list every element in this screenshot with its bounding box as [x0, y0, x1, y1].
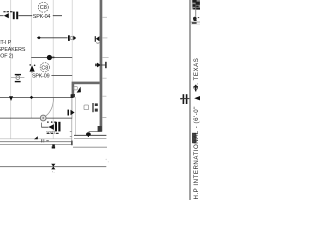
lower speaker horn triangle [48, 124, 54, 130]
keynote head [193, 17, 197, 21]
lower speaker bar 1 [55, 122, 57, 132]
header line y=97.4 [0, 96, 72, 98]
wire to left edge [0, 15, 4, 17]
svg-text:1O21: 1O21 [46, 130, 55, 134]
wall speaker (y=38) horn [96, 36, 100, 41]
speaker SPK-04 bar 2 [16, 12, 18, 20]
diamond at grid B [30, 96, 34, 99]
ceiling speaker symbol [30, 65, 35, 71]
wall tick y=38 [102, 37, 107, 39]
wall tick y=57.6 [102, 57, 108, 59]
speaker SPK-04 bar 1 [13, 12, 15, 20]
wall speaker (y=65) back square [95, 64, 97, 67]
speaker SPK-04 dashed cover [3, 11, 12, 12]
leader line y=38 [41, 37, 68, 39]
corridor-left end cap [71, 141, 73, 146]
tag circle C8 (top) [38, 2, 48, 12]
jamb block at grid D [71, 94, 74, 98]
beam section symbol bar 2 [186, 94, 188, 104]
outlet square [84, 105, 89, 110]
corridor-left line 3 [0, 144, 72, 146]
grid line B (x=31.3) [30, 0, 32, 118]
corridor-left line 2 [0, 141, 72, 143]
speaker symbol mid horn [73, 36, 76, 41]
corridor-right lower line [73, 146, 107, 148]
corridor-left line 1 [0, 138, 72, 140]
faint marks above line end [106, 159, 107, 160]
keynote stem line [195, 5, 197, 17]
device symbol bottom bar [15, 81, 21, 82]
exit device blob [52, 144, 55, 146]
wall tick y=17 [102, 16, 107, 18]
sensor square [74, 87, 77, 90]
svg-text:CHT-I P: CHT-I P [0, 40, 12, 46]
speaker symbol (x=72,y=112) bar [68, 110, 70, 116]
corridor-right top line [74, 134, 106, 136]
door hardware mark [46, 140, 49, 142]
speaker symbol (x=72,y=112) horn [71, 110, 75, 115]
bold T overlay [193, 86, 198, 87]
svg-text:C8: C8 [41, 65, 48, 71]
leader line y=57.6 [31, 57, 72, 59]
sill line y=118 [0, 117, 72, 119]
partition face line (x=75.5) [75, 97, 77, 135]
lower speaker dashes below [47, 133, 59, 134]
door jamb bar [92, 103, 93, 112]
beam section symbol bar 1 [183, 94, 185, 104]
svg-text:H.P INTERNATIONAL - (6'-0": H.P INTERNATIONAL - (6'-0" [193, 106, 200, 199]
grid line D (x=72.2) [71, 0, 73, 118]
leader arrow diamond [37, 36, 41, 39]
speaker symbol mid (x=72) bar [68, 35, 70, 41]
leader elbow horizontal [41, 126, 48, 128]
beam symbol end dot [180, 98, 182, 100]
wall speaker (y=65) bar [105, 62, 106, 68]
svg-text:P OF 2): P OF 2) [0, 54, 14, 60]
sensor arrow triangle [77, 87, 81, 93]
jamb mark lower [95, 109, 98, 112]
grid line A (x=10.7) [10, 0, 12, 139]
wall tick y=78 [102, 77, 106, 79]
door swing arc [44, 98, 54, 117]
title arrow [194, 96, 200, 100]
wall horizontal band (y=82) [72, 82, 100, 85]
device symbol top bar [15, 74, 21, 75]
device symbol line [11, 77, 24, 79]
corridor-right second line [74, 138, 106, 140]
lower speaker bar 2 [58, 122, 60, 132]
svg-text:SPEAKERS: SPEAKERS [0, 47, 26, 53]
wall stub foot [71, 94, 75, 97]
speaker symbol mid ring [70, 36, 73, 39]
svg-text:C8: C8 [40, 5, 47, 11]
partition tick 1 [70, 130, 72, 133]
junction blob y=57.6 [47, 55, 52, 60]
speaker SPK-04 horn triangle [4, 13, 9, 18]
partition face line (x=71.8) [71, 97, 73, 141]
door wedge [34, 136, 38, 139]
wall tick y=96 [102, 95, 106, 97]
wall speaker (y=65) horn [97, 63, 101, 68]
device symbol body circle [16, 76, 20, 80]
grid line C (x=53.2) [52, 0, 54, 139]
down triangle at grid A [9, 96, 13, 101]
wall main vertical (x=100) [100, 0, 103, 132]
device blob on corridor wall [86, 132, 91, 136]
label SPK-04 [32, 13, 53, 19]
door tick 1 [40, 139, 43, 142]
title block top scribble [191, 0, 200, 10]
dots above speaker SPK-09 unit [47, 121, 49, 123]
svg-text:SPK-09: SPK-09 [32, 74, 50, 80]
faint dots below bowtie [52, 171, 53, 172]
beam section symbol line [180, 98, 189, 100]
wall speaker (y=38) bar [95, 36, 96, 42]
bold overlay word [192, 133, 196, 143]
wall speaker (y=65) line [101, 64, 105, 66]
tag circle C8 (mid) [40, 63, 49, 72]
leader elbow vertical [40, 123, 42, 128]
leader SPK-09 [51, 75, 72, 77]
partition tick 2 [70, 135, 72, 138]
bowtie valve symbol lower [51, 167, 55, 170]
leader SPK-04 [18, 15, 62, 17]
target circle [40, 115, 46, 121]
wall speaker (y=38) mark below [96, 42, 99, 45]
wall tick y=117 [102, 116, 106, 118]
label SPK-09 [31, 73, 51, 79]
door tick 2 [42, 139, 45, 142]
svg-text:O. TEXAS: O. TEXAS [193, 58, 200, 90]
wall bottom inner line [89, 131, 100, 133]
wall stub vertical [72, 84, 75, 94]
bowtie valve symbol upper [51, 164, 55, 167]
sheet border line [189, 0, 190, 200]
wall end cap dark [98, 126, 102, 132]
junction notch [52, 57, 54, 59]
title bar under keynote [192, 22, 197, 23]
jamb mark upper [95, 103, 98, 106]
long corridor line y=166.6 [0, 166, 106, 168]
svg-text:SPK-04: SPK-04 [33, 14, 51, 20]
